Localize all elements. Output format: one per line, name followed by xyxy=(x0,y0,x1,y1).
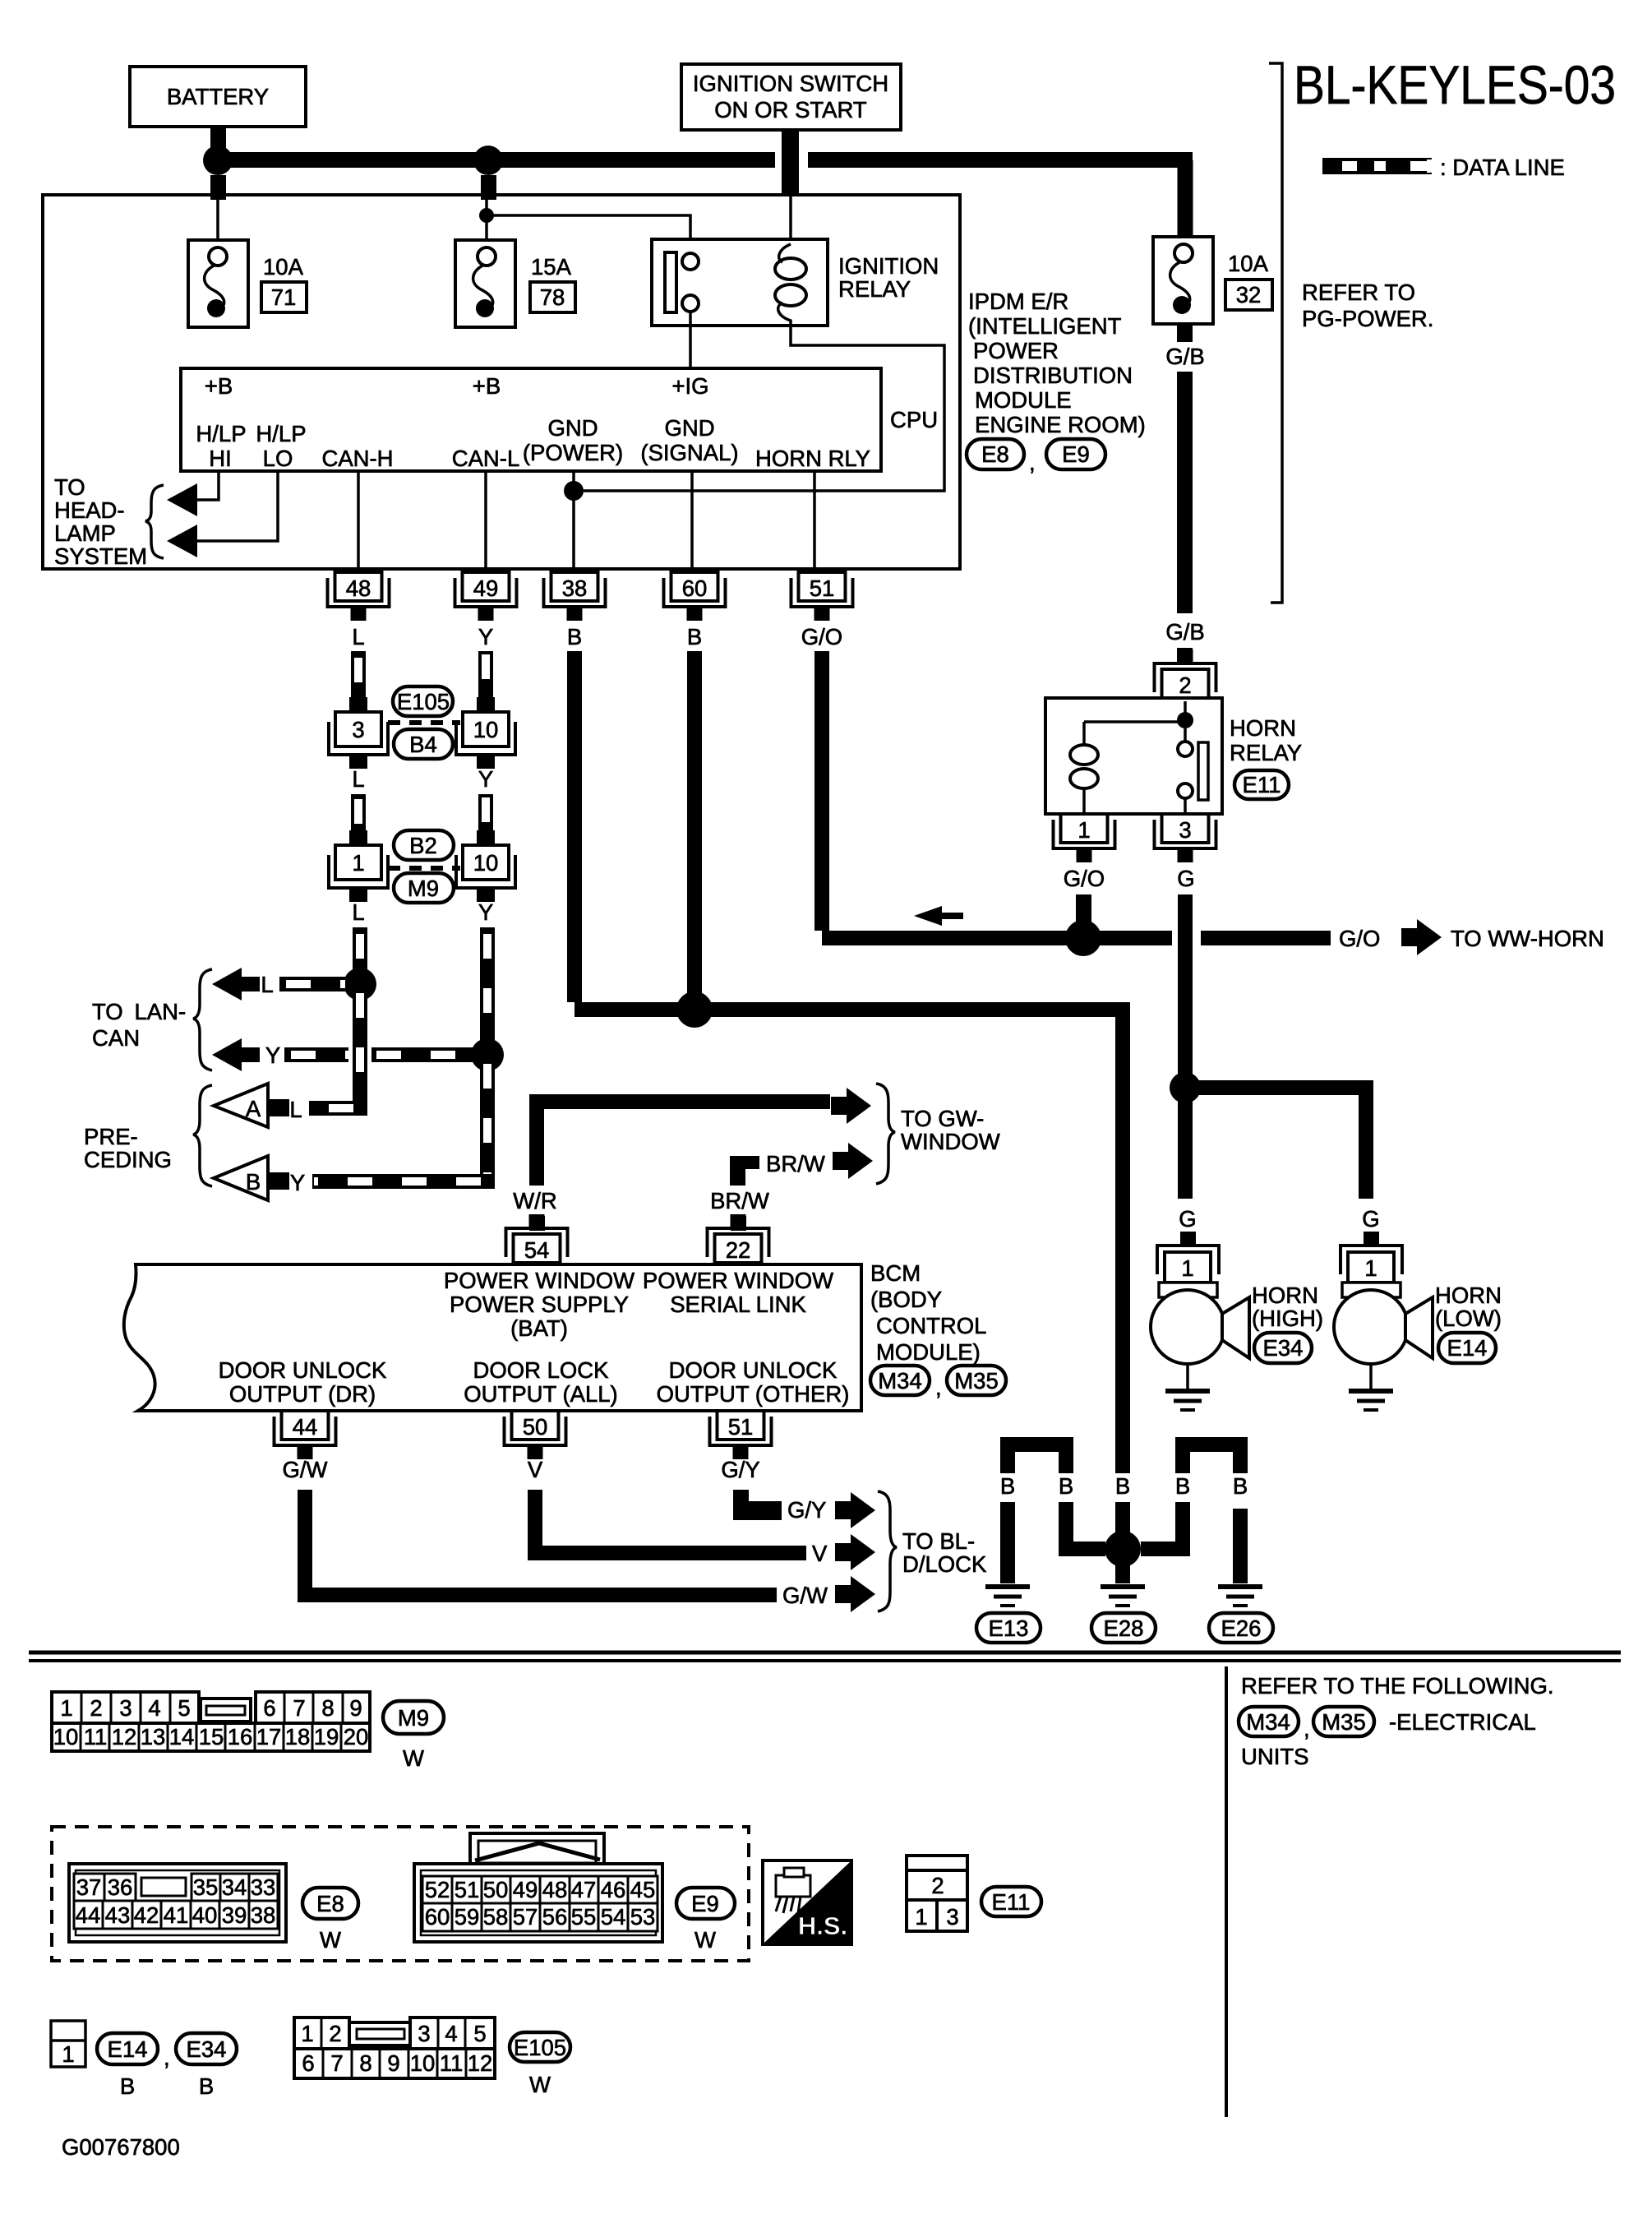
svg-text:17: 17 xyxy=(256,1724,282,1749)
connector label M35 oval xyxy=(947,1366,1006,1395)
svg-text:39: 39 xyxy=(222,1902,247,1928)
connector label E11 oval xyxy=(1234,770,1289,799)
svg-text:H/LP: H/LP xyxy=(256,421,306,446)
label door lock output all xyxy=(464,1357,617,1407)
svg-text:HORN: HORN xyxy=(1252,1283,1318,1308)
svg-text:H/LP: H/LP xyxy=(196,421,246,446)
wire L data line segment 2 xyxy=(351,794,366,832)
svg-text:OUTPUT (ALL): OUTPUT (ALL) xyxy=(464,1381,617,1407)
wire B 5 to E26 ground xyxy=(1233,1509,1248,1583)
wire H/LP LO to headlamp arrow xyxy=(192,471,278,541)
svg-text:HORN: HORN xyxy=(1230,715,1296,741)
dashed harness box xyxy=(52,1827,749,1961)
svg-text:L: L xyxy=(261,972,273,997)
wire W/R from gw-window xyxy=(537,1102,830,1186)
node fuse78 junction xyxy=(473,146,503,175)
svg-text:V: V xyxy=(528,1457,543,1482)
svg-text:LO: LO xyxy=(263,446,293,471)
svg-text:BR/W: BR/W xyxy=(766,1151,825,1176)
svg-text:L: L xyxy=(289,1097,302,1122)
svg-text:6: 6 xyxy=(302,2050,314,2076)
svg-text:(HIGH): (HIGH) xyxy=(1252,1306,1323,1331)
arrow to ww-horn xyxy=(1401,919,1442,955)
wire G/O pin51 down xyxy=(814,651,829,931)
svg-text:E9: E9 xyxy=(1062,441,1090,467)
inline connector 3 E105 xyxy=(329,697,388,769)
svg-text:W: W xyxy=(694,1927,716,1953)
svg-text:49: 49 xyxy=(473,575,499,601)
svg-text:(LOW): (LOW) xyxy=(1435,1306,1502,1331)
svg-text:51: 51 xyxy=(455,1877,480,1902)
svg-text:19: 19 xyxy=(314,1724,339,1749)
svg-text:BATTERY: BATTERY xyxy=(167,84,269,109)
svg-text:15A: 15A xyxy=(531,254,572,280)
svg-text:G/O: G/O xyxy=(801,624,842,649)
svg-text:(BODY: (BODY xyxy=(870,1287,942,1312)
svg-text:DOOR UNLOCK: DOOR UNLOCK xyxy=(219,1357,387,1383)
connector label E8 oval bottom xyxy=(302,1888,358,1953)
svg-text:,: , xyxy=(164,2045,170,2070)
label door unlock output other xyxy=(657,1357,850,1407)
svg-text:B: B xyxy=(1175,1473,1190,1499)
svg-text:E105: E105 xyxy=(397,689,450,714)
svg-text:HEAD-: HEAD- xyxy=(54,497,125,523)
label GND POWER xyxy=(523,415,623,465)
svg-text:BR/W: BR/W xyxy=(710,1188,769,1213)
svg-text:TO WW-HORN: TO WW-HORN xyxy=(1451,926,1604,951)
wire B 4 to junction xyxy=(1141,1502,1183,1549)
ignition switch SW1 xyxy=(681,64,901,130)
svg-text:10: 10 xyxy=(410,2050,436,2076)
wire B pin60 to ground bus xyxy=(687,651,702,1002)
label fuse number 78 box xyxy=(530,282,575,312)
wire G/B down to horn relay xyxy=(1177,372,1193,663)
svg-text:CAN-L: CAN-L xyxy=(452,446,520,471)
svg-text:CEDING: CEDING xyxy=(84,1147,172,1172)
connector E105 pin grid xyxy=(294,2018,495,2078)
label BCM text xyxy=(870,1260,986,1365)
wire V to bl-dlock xyxy=(535,1490,806,1553)
view icon H.S. xyxy=(763,1860,851,1944)
svg-text:ON OR START: ON OR START xyxy=(714,97,867,122)
wire L to lan arrow xyxy=(279,977,360,991)
svg-text:B2: B2 xyxy=(409,833,437,858)
wire B ground bus down xyxy=(1115,1010,1130,1473)
pin 1 horn relay connector xyxy=(1054,814,1115,862)
svg-text:8: 8 xyxy=(321,1695,334,1721)
pin 48 CAN-H connector xyxy=(328,572,390,621)
label IPDM E/R block xyxy=(968,289,1146,437)
svg-text:20: 20 xyxy=(344,1724,369,1749)
svg-text:51: 51 xyxy=(728,1414,754,1440)
svg-text:E14: E14 xyxy=(108,2036,148,2062)
horn high E34 xyxy=(1151,1283,1249,1410)
svg-text:OUTPUT (OTHER): OUTPUT (OTHER) xyxy=(657,1381,850,1407)
svg-text:G/B: G/B xyxy=(1165,619,1204,645)
svg-text:1: 1 xyxy=(301,2021,313,2046)
svg-text:HORN RLY: HORN RLY xyxy=(755,446,870,471)
dashed connector split line 2 xyxy=(388,866,460,871)
brace preceding xyxy=(193,1085,212,1186)
svg-text:41: 41 xyxy=(164,1902,189,1928)
wire G/Y jog xyxy=(733,1490,782,1520)
svg-text:ENGINE ROOM): ENGINE ROOM) xyxy=(975,412,1146,437)
svg-text:(SIGNAL): (SIGNAL) xyxy=(640,440,738,465)
svg-text:WINDOW: WINDOW xyxy=(901,1129,1000,1154)
connector label E9 oval bottom xyxy=(676,1888,735,1953)
svg-text:54: 54 xyxy=(601,1904,626,1930)
svg-text:B: B xyxy=(199,2073,214,2099)
inline connector 10 E105 xyxy=(456,697,515,769)
svg-text:,: , xyxy=(1029,450,1036,475)
svg-text:MODULE): MODULE) xyxy=(876,1339,981,1365)
wire W/R stub pin54 xyxy=(529,1216,545,1231)
preceding triangle A xyxy=(214,1084,289,1127)
connector label E105 oval xyxy=(393,686,453,716)
wire H/LP HI to headlamp arrow xyxy=(192,471,219,500)
svg-text:16: 16 xyxy=(228,1724,253,1749)
label door unlock output dr xyxy=(219,1357,387,1407)
svg-text:TO GW-: TO GW- xyxy=(901,1106,984,1131)
svg-text:+B: +B xyxy=(205,373,233,399)
pin 49 CAN-L connector xyxy=(455,572,517,621)
connector label E8 oval xyxy=(967,439,1024,469)
svg-text:IPDM E/R: IPDM E/R xyxy=(968,289,1068,314)
svg-text:1: 1 xyxy=(60,1695,72,1721)
connector E8 pin grid xyxy=(69,1864,286,1942)
wire G/B fuse32 stub xyxy=(1177,324,1193,342)
arrow to bl-dlock G/Y xyxy=(835,1492,875,1528)
svg-text:Y: Y xyxy=(478,899,493,925)
data line legend bar xyxy=(1322,158,1432,174)
svg-text:11: 11 xyxy=(84,1724,108,1749)
brace head-lamp system xyxy=(145,485,164,558)
IPDM internal unit box xyxy=(181,368,881,471)
label H/LP LO xyxy=(256,421,306,471)
label horn high xyxy=(1252,1283,1323,1331)
dashed connector split line 1 xyxy=(388,720,460,725)
svg-text:G/Y: G/Y xyxy=(721,1457,759,1482)
svg-text:B4: B4 xyxy=(409,732,437,757)
refer column divider xyxy=(1225,1666,1228,2117)
wire main power bus right xyxy=(808,152,1193,168)
wire bus corner to fuse 32 xyxy=(1178,160,1193,237)
svg-text:H.S.: H.S. xyxy=(798,1911,847,1940)
wire Y data line segment 3 xyxy=(480,927,495,1055)
pin 44 BCM connector xyxy=(275,1411,336,1459)
svg-text:40: 40 xyxy=(192,1902,218,1928)
wire ignition switch to relay coil xyxy=(789,196,792,244)
svg-text:E34: E34 xyxy=(187,2036,227,2062)
svg-text:RELAY: RELAY xyxy=(1230,740,1302,765)
svg-text:REFER TO THE FOLLOWING.: REFER TO THE FOLLOWING. xyxy=(1241,1673,1553,1699)
svg-text:78: 78 xyxy=(540,284,565,310)
wire BR/W stub pin22 xyxy=(731,1216,746,1231)
wire B to E13 ground xyxy=(1000,1502,1015,1583)
connector label E9 oval xyxy=(1046,439,1105,469)
label to lan-can xyxy=(92,999,186,1051)
svg-text:33: 33 xyxy=(251,1874,276,1900)
label power window power supply xyxy=(444,1268,634,1341)
svg-text:48: 48 xyxy=(542,1877,568,1902)
connector label M34 oval refer xyxy=(1239,1707,1299,1736)
svg-text:9: 9 xyxy=(349,1695,362,1721)
svg-text:M34: M34 xyxy=(878,1368,922,1394)
pin 51 BCM connector xyxy=(710,1411,772,1459)
svg-text:G/W: G/W xyxy=(782,1583,828,1608)
svg-text:G00767800: G00767800 xyxy=(62,2134,180,2160)
connector label E11 oval bottom xyxy=(981,1887,1041,1916)
svg-text:V: V xyxy=(812,1541,828,1566)
connector M9 pin grid xyxy=(52,1692,370,1751)
svg-text:11: 11 xyxy=(440,2050,464,2076)
connector label B4 oval xyxy=(394,729,453,759)
svg-text:71: 71 xyxy=(271,284,297,310)
wire G branch to horn low xyxy=(1185,1088,1366,1095)
wire G/O pin1 to junction xyxy=(1076,894,1091,926)
arrow to lan L xyxy=(212,968,260,1001)
svg-text:IGNITION: IGNITION xyxy=(838,253,939,279)
svg-text:PG-POWER.: PG-POWER. xyxy=(1302,306,1433,331)
svg-text:E28: E28 xyxy=(1104,1615,1144,1641)
ground E13 xyxy=(976,1587,1041,1643)
svg-text:POWER SUPPLY: POWER SUPPLY xyxy=(450,1292,629,1317)
wire B ground bus horizontal xyxy=(575,1010,1123,1018)
svg-text:E8: E8 xyxy=(981,441,1009,467)
svg-text:2: 2 xyxy=(90,1695,102,1721)
svg-text:B: B xyxy=(567,624,582,649)
svg-text:1: 1 xyxy=(1077,817,1090,843)
svg-text:DOOR UNLOCK: DOOR UNLOCK xyxy=(669,1357,838,1383)
svg-text:Y: Y xyxy=(478,624,493,649)
wire Y data line to preceding B xyxy=(312,1055,487,1181)
connector label M34 oval xyxy=(870,1366,930,1395)
wire GND signal inside IPDM xyxy=(690,471,694,569)
svg-text:BCM: BCM xyxy=(870,1260,921,1286)
svg-text:: DATA LINE: : DATA LINE xyxy=(1440,155,1565,180)
wire B pin38 to ground bus xyxy=(567,651,582,1002)
svg-text:60: 60 xyxy=(682,575,708,601)
wire G stub horn high xyxy=(1180,1232,1196,1246)
connector label E34 oval bottom xyxy=(176,2033,237,2099)
svg-text:51: 51 xyxy=(810,575,835,601)
svg-text:12: 12 xyxy=(468,2050,493,2076)
svg-text:G/B: G/B xyxy=(1165,344,1204,369)
svg-text:35: 35 xyxy=(193,1874,219,1900)
node B ground junction xyxy=(676,991,713,1028)
wire relay coil to CPU xyxy=(574,326,944,491)
svg-text:E26: E26 xyxy=(1221,1615,1262,1641)
connector label M9 oval xyxy=(394,873,454,903)
svg-text:HORN: HORN xyxy=(1435,1283,1502,1308)
wire GND power inside IPDM xyxy=(572,471,575,569)
svg-text:5: 5 xyxy=(178,1695,190,1721)
pin 3 horn relay connector xyxy=(1155,814,1216,862)
svg-text:4: 4 xyxy=(445,2021,457,2046)
svg-text:50: 50 xyxy=(523,1414,548,1440)
svg-text:49: 49 xyxy=(513,1877,538,1902)
label horn low xyxy=(1435,1283,1502,1331)
svg-text:POWER: POWER xyxy=(973,338,1059,363)
wire G/O horizontal to ww-horn xyxy=(822,931,1331,945)
svg-text:REFER TO: REFER TO xyxy=(1302,280,1415,305)
wire G horn relay down xyxy=(1178,894,1193,1077)
connector label B2 oval xyxy=(394,830,454,860)
svg-text:TO LAN-: TO LAN- xyxy=(92,999,186,1024)
BCM body control module box xyxy=(124,1264,861,1411)
svg-text:38: 38 xyxy=(562,575,588,601)
node Y junction to lan-can xyxy=(471,1038,504,1071)
wire B bridge 1 xyxy=(1008,1444,1066,1473)
svg-text:,: , xyxy=(935,1375,942,1400)
arrow to headlamp system 1 xyxy=(167,483,197,516)
svg-text:B: B xyxy=(1115,1473,1130,1499)
svg-text:42: 42 xyxy=(134,1902,159,1928)
connector label E105 oval bottom xyxy=(510,2032,570,2097)
ignition relay K1 xyxy=(652,239,828,326)
svg-text:52: 52 xyxy=(425,1877,450,1902)
svg-text:1: 1 xyxy=(1181,1255,1193,1281)
svg-text:RELAY: RELAY xyxy=(838,276,911,302)
svg-text:E8: E8 xyxy=(316,1891,344,1916)
svg-text:47: 47 xyxy=(571,1877,597,1902)
svg-text:4: 4 xyxy=(148,1695,160,1721)
svg-text:10: 10 xyxy=(473,850,499,876)
svg-text:+IG: +IG xyxy=(671,373,708,399)
svg-text:G: G xyxy=(1179,1206,1196,1232)
svg-text:HI: HI xyxy=(209,446,232,471)
pin 54 BCM connector xyxy=(506,1214,568,1263)
svg-text:Y: Y xyxy=(290,1170,305,1195)
svg-text:M35: M35 xyxy=(954,1368,999,1394)
arrow to bl-dlock G/W xyxy=(835,1576,875,1612)
svg-text:TO: TO xyxy=(54,474,85,500)
svg-text:W: W xyxy=(529,2072,551,2097)
wire Y data line segment 1 xyxy=(478,651,493,699)
svg-text:UNITS: UNITS xyxy=(1241,1744,1309,1769)
wire B 2 to junction xyxy=(1066,1502,1105,1549)
svg-text:G/W: G/W xyxy=(283,1457,328,1482)
horn low connector 1 xyxy=(1341,1246,1402,1283)
svg-text:E9: E9 xyxy=(691,1891,719,1916)
svg-text:LAMP: LAMP xyxy=(54,520,116,546)
fuse F32 10A xyxy=(1153,237,1213,324)
svg-text:,: , xyxy=(1304,1716,1310,1741)
svg-text:PRE-: PRE- xyxy=(84,1124,138,1149)
separator double line xyxy=(29,1652,1621,1661)
pin 22 BCM connector xyxy=(708,1214,769,1263)
wire L data line to preceding A xyxy=(309,984,360,1108)
svg-text:(INTELLIGENT: (INTELLIGENT xyxy=(968,313,1122,339)
arrow to lan Y xyxy=(212,1038,260,1071)
svg-text:3: 3 xyxy=(946,1904,958,1930)
svg-text:B: B xyxy=(1000,1473,1015,1499)
svg-text:3: 3 xyxy=(119,1695,132,1721)
svg-text:Y: Y xyxy=(478,766,493,792)
svg-text:3: 3 xyxy=(1179,817,1191,843)
horn relay K2 xyxy=(1045,698,1222,814)
svg-text:53: 53 xyxy=(630,1904,656,1930)
label to head-lamp system xyxy=(54,474,147,569)
fuse F71 10A xyxy=(188,240,248,327)
svg-text:POWER WINDOW: POWER WINDOW xyxy=(643,1268,833,1293)
svg-text:CONTROL: CONTROL xyxy=(876,1313,986,1338)
svg-text:13: 13 xyxy=(141,1724,166,1749)
svg-text:POWER WINDOW: POWER WINDOW xyxy=(444,1268,634,1293)
pin 38 GND power connector xyxy=(544,572,606,621)
wire battery stub xyxy=(210,127,226,150)
svg-text:CAN: CAN xyxy=(92,1025,140,1051)
wire Y to lan arrow xyxy=(284,1047,487,1062)
svg-text:M34: M34 xyxy=(1246,1709,1290,1735)
arrow to headlamp system 2 xyxy=(167,525,197,557)
connector label E34 oval xyxy=(1254,1333,1312,1363)
inline connector 10 M9 xyxy=(456,830,515,902)
svg-text:46: 46 xyxy=(601,1877,626,1902)
arrow to gw-window W/R xyxy=(831,1088,871,1124)
svg-text:Y: Y xyxy=(265,1042,280,1068)
brace to lan-can xyxy=(193,969,212,1070)
svg-text:36: 36 xyxy=(108,1874,133,1900)
svg-text:10A: 10A xyxy=(1228,251,1269,276)
horn low E14 xyxy=(1334,1283,1433,1410)
wire G to horn low down xyxy=(1359,1088,1373,1199)
label GND SIGNAL xyxy=(640,415,738,465)
svg-text:22: 22 xyxy=(726,1237,751,1263)
svg-text:W/R: W/R xyxy=(513,1188,556,1213)
svg-text:E11: E11 xyxy=(992,1889,1031,1915)
svg-text:9: 9 xyxy=(387,2050,399,2076)
brace to gw-window xyxy=(876,1084,895,1184)
svg-text:10A: 10A xyxy=(263,254,304,280)
wire BR/W stub from gw-window xyxy=(730,1156,759,1186)
svg-text:M9: M9 xyxy=(408,876,439,901)
svg-text:D/LOCK: D/LOCK xyxy=(902,1551,987,1577)
svg-text:OUTPUT (DR): OUTPUT (DR) xyxy=(229,1381,376,1407)
svg-text:37: 37 xyxy=(76,1874,102,1900)
svg-text:7: 7 xyxy=(330,2050,343,2076)
label horn relay xyxy=(1230,715,1302,765)
svg-text:18: 18 xyxy=(285,1724,311,1749)
wire G/W to bl-dlock xyxy=(305,1490,777,1595)
svg-text:SERIAL LINK: SERIAL LINK xyxy=(670,1292,806,1317)
svg-text:BL-KEYLES-03: BL-KEYLES-03 xyxy=(1294,54,1616,115)
svg-text:45: 45 xyxy=(630,1877,656,1902)
connector E9 pin grid xyxy=(414,1833,662,1942)
svg-text:A: A xyxy=(246,1096,261,1121)
label ignition relay xyxy=(838,253,939,302)
connector label M9 oval bottom xyxy=(383,1701,444,1771)
inline connector 1 M9 xyxy=(329,830,388,902)
connector label M35 oval refer xyxy=(1313,1707,1374,1736)
IPDM E/R module box xyxy=(43,195,960,569)
svg-text:SYSTEM: SYSTEM xyxy=(54,543,147,569)
svg-text:G/O: G/O xyxy=(1339,926,1380,951)
connector label E14 oval bottom xyxy=(97,2033,158,2099)
svg-text:1: 1 xyxy=(62,2041,74,2067)
svg-text:15: 15 xyxy=(199,1724,224,1749)
wire HORN RLY inside IPDM xyxy=(813,471,816,569)
pin 2 horn relay connector xyxy=(1155,649,1216,698)
preceding triangle B xyxy=(214,1156,289,1200)
connector E14 E34 pin box xyxy=(51,2021,85,2067)
label power window serial link xyxy=(643,1268,833,1317)
svg-text:CPU: CPU xyxy=(890,407,938,432)
svg-text:E14: E14 xyxy=(1447,1335,1488,1361)
svg-text:L: L xyxy=(352,624,364,649)
battery B1 xyxy=(130,67,306,127)
fuse F78 15A xyxy=(455,240,515,327)
